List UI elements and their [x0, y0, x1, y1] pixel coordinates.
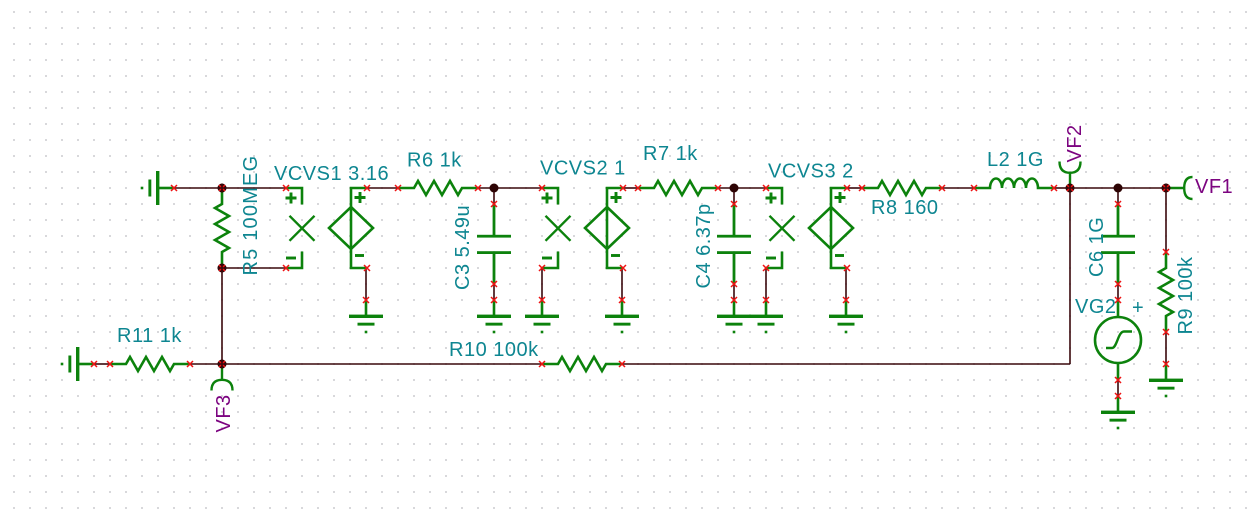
- junction: [490, 184, 499, 193]
- capacitor C3: [477, 204, 511, 284]
- voltage pin VF1: [1166, 177, 1193, 199]
- junction: [218, 360, 227, 369]
- VCVS2 control X: [546, 216, 571, 241]
- pin markers over junctions: [219, 185, 225, 191]
- VCVS2 input minus sign: [542, 257, 552, 260]
- VCVS3 input - terminal: [766, 252, 782, 269]
- VCVS3 control X: [770, 216, 795, 241]
- svg-text:R11 1k: R11 1k: [117, 325, 182, 347]
- wire: [733, 284, 735, 300]
- VCVS2 input pins: [539, 185, 545, 191]
- svg-text:VF2: VF2: [1064, 124, 1086, 162]
- svg-text:VCVS3 2: VCVS3 2: [768, 161, 854, 183]
- svg-text:R9 100k: R9 100k: [1175, 256, 1197, 334]
- VCVS1 input plus sign: [286, 193, 297, 204]
- wire: [718, 187, 766, 189]
- VCVS2 source diamond: [585, 188, 629, 268]
- inductor L2: [974, 179, 1054, 189]
- wire: [846, 187, 862, 189]
- wire: [190, 363, 222, 365]
- wire: [622, 363, 1070, 365]
- capacitor C4: [717, 204, 751, 284]
- ground: [1101, 396, 1135, 429]
- wire: [1070, 187, 1166, 189]
- resistor R8: [862, 181, 942, 195]
- VCVS3 source plus sign: [835, 192, 846, 203]
- resistor R7: [638, 181, 718, 195]
- VCVS3 source diamond: [809, 188, 853, 268]
- svg-text:VCVS2 1: VCVS2 1: [540, 158, 626, 180]
- svg-text:R7 1k: R7 1k: [643, 143, 698, 165]
- wire: [478, 187, 542, 189]
- VCVS3 source minus sign: [835, 254, 844, 257]
- svg-text:C6 1G: C6 1G: [1086, 217, 1108, 277]
- wire: [845, 268, 847, 300]
- wire: [541, 268, 543, 300]
- ground: [141, 171, 174, 205]
- VCVS1 input pins: [283, 185, 289, 191]
- voltage generator VG2: [1095, 300, 1141, 380]
- svg-text:R10 100k: R10 100k: [449, 339, 539, 361]
- junction: [218, 264, 227, 273]
- resistor R11: [110, 357, 190, 371]
- VCVS3 input pins: [763, 185, 769, 191]
- VCVS1 source minus sign: [355, 254, 364, 257]
- ground: [605, 300, 639, 333]
- ground: [477, 300, 511, 333]
- resistor R9: [1159, 252, 1173, 332]
- VCVS2 input - terminal: [542, 252, 558, 269]
- VCVS3 input plus sign: [766, 193, 777, 204]
- ground: [349, 300, 383, 333]
- wire: [765, 268, 767, 300]
- VCVS3 input minus sign: [766, 257, 776, 260]
- svg-text:VCVS1 3.16: VCVS1 3.16: [274, 163, 389, 185]
- junction: [1114, 184, 1123, 193]
- ground: [525, 300, 559, 333]
- wire: [493, 284, 495, 300]
- VCVS3 output pins: [844, 185, 850, 191]
- wire: [1117, 284, 1119, 300]
- wire: [174, 187, 222, 189]
- svg-text:R5 100MEG: R5 100MEG: [240, 155, 262, 276]
- wire: [1165, 188, 1167, 252]
- ground: [749, 300, 783, 333]
- VCVS2 output pins: [620, 185, 626, 191]
- wire: [1117, 380, 1119, 396]
- ground: [717, 300, 751, 333]
- VCVS1 source plus sign: [355, 192, 366, 203]
- VCVS1 output pins: [364, 185, 370, 191]
- wire: [733, 188, 735, 204]
- resistor R10: [542, 357, 622, 371]
- svg-text:VF1: VF1: [1195, 176, 1233, 198]
- wire: [1165, 332, 1167, 364]
- VCVS1 source diamond: [329, 188, 373, 268]
- VCVS2 input plus sign: [542, 193, 553, 204]
- capacitor C6: [1101, 204, 1135, 284]
- voltage pin VF3: [212, 364, 233, 391]
- junction: [1162, 184, 1171, 193]
- svg-text:R8 160: R8 160: [871, 197, 939, 219]
- wire: [1117, 188, 1119, 204]
- junction: [730, 184, 739, 193]
- wire: [94, 363, 110, 365]
- VCVS2 input + terminal: [542, 188, 558, 205]
- wire: [1054, 187, 1070, 189]
- svg-text:VG2: VG2: [1075, 296, 1117, 318]
- VCVS3 input + terminal: [766, 188, 782, 205]
- wire: [221, 268, 223, 364]
- wire: [942, 187, 974, 189]
- VCVS1 control X: [290, 216, 315, 241]
- ground: [829, 300, 863, 333]
- resistor R6: [398, 181, 478, 195]
- junction: [1066, 184, 1075, 193]
- wire: [222, 187, 286, 189]
- VCVS1 input - terminal: [286, 252, 302, 269]
- wire: [366, 187, 398, 189]
- junction: [218, 184, 227, 193]
- VCVS1 input minus sign: [286, 257, 296, 260]
- resistor R5: [215, 188, 229, 268]
- svg-text:C4 6.37p: C4 6.37p: [693, 203, 715, 288]
- wire: [622, 187, 638, 189]
- svg-text:VF3: VF3: [213, 394, 235, 432]
- svg-text:C3 5.49u: C3 5.49u: [452, 205, 474, 290]
- ground: [61, 347, 94, 381]
- VCVS2 source minus sign: [611, 254, 620, 257]
- VCVS2 source plus sign: [611, 192, 622, 203]
- ground: [1149, 364, 1183, 397]
- wire: [222, 267, 286, 269]
- wire: [222, 363, 542, 365]
- svg-text:+: +: [1132, 297, 1144, 319]
- svg-text:L2 1G: L2 1G: [987, 149, 1044, 171]
- wire: [1069, 188, 1071, 364]
- wire: [621, 268, 623, 300]
- voltage pin VF2: [1060, 162, 1081, 189]
- wire: [493, 188, 495, 204]
- svg-text:R6 1k: R6 1k: [407, 150, 462, 172]
- wire: [365, 268, 367, 300]
- VCVS1 input + terminal: [286, 188, 302, 205]
